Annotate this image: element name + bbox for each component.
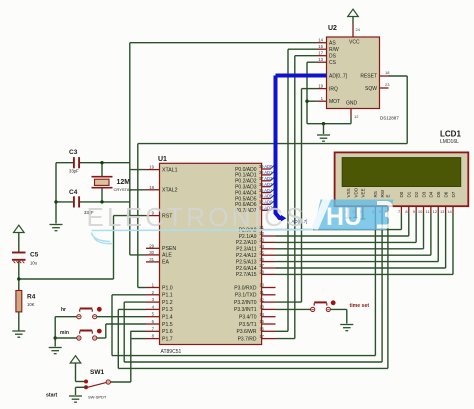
svg-text:D4: D4 [429, 191, 434, 197]
svg-text:CS: CS [329, 60, 337, 66]
svg-text:AD3: AD3 [264, 182, 273, 187]
svg-text:start: start [46, 393, 58, 399]
svg-text:29: 29 [149, 243, 154, 248]
svg-text:P3.5/T1: P3.5/T1 [239, 322, 257, 328]
svg-text:VCC: VCC [349, 40, 360, 46]
svg-text:P3.3/INT1: P3.3/INT1 [234, 307, 257, 313]
svg-text:10: 10 [418, 209, 423, 214]
svg-text:P3.1/TXD: P3.1/TXD [235, 293, 257, 299]
svg-text:15: 15 [259, 319, 264, 324]
svg-text:DS12887: DS12887 [380, 116, 399, 121]
svg-text:16: 16 [259, 327, 264, 332]
svg-text:P2.6/A14: P2.6/A14 [236, 266, 257, 272]
svg-text:ELECTRONICS: ELECTRONICS [87, 202, 307, 232]
svg-text:R/W: R/W [329, 47, 339, 53]
svg-text:DS: DS [329, 54, 337, 60]
svg-text:10u: 10u [30, 261, 38, 266]
svg-text:IRQ: IRQ [329, 86, 338, 92]
svg-text:LCD1: LCD1 [440, 130, 461, 139]
svg-text:P2.3/A11: P2.3/A11 [236, 247, 256, 253]
svg-text:10: 10 [259, 283, 264, 288]
svg-text:LMD16L: LMD16L [440, 139, 459, 145]
svg-text:P1.1: P1.1 [162, 293, 173, 299]
svg-text:P1.5: P1.5 [162, 322, 173, 328]
svg-text:PSEN: PSEN [162, 246, 176, 252]
svg-text:XTAL1: XTAL1 [162, 167, 178, 173]
svg-text:13: 13 [440, 209, 445, 214]
svg-text:18: 18 [385, 70, 390, 75]
svg-text:P2.5/A13: P2.5/A13 [236, 259, 257, 265]
svg-text:12M: 12M [117, 179, 131, 186]
svg-text:AD[0..7]: AD[0..7] [329, 73, 348, 79]
svg-text:AD4: AD4 [264, 188, 273, 193]
svg-text:P1.6: P1.6 [162, 329, 173, 335]
svg-text:P2.1/A9: P2.1/A9 [239, 234, 257, 240]
svg-text:P3.6/WR: P3.6/WR [236, 329, 256, 335]
svg-text:25: 25 [259, 250, 264, 255]
svg-text:VDD: VDD [354, 187, 359, 197]
svg-text:C3: C3 [69, 149, 78, 156]
svg-text:19: 19 [149, 165, 154, 170]
svg-text:10K: 10K [27, 302, 35, 307]
svg-text:AT89C51: AT89C51 [161, 349, 182, 355]
svg-text:P3.2/INT0: P3.2/INT0 [234, 300, 257, 306]
svg-text:11: 11 [260, 290, 265, 295]
svg-text:R4: R4 [27, 294, 36, 301]
svg-text:17: 17 [259, 334, 264, 339]
svg-text:12: 12 [433, 209, 438, 214]
svg-text:min: min [60, 330, 69, 336]
svg-text:MOT: MOT [329, 99, 340, 105]
svg-text:D6: D6 [443, 191, 448, 197]
svg-text:AD0: AD0 [264, 164, 273, 169]
svg-text:P1.7: P1.7 [162, 336, 173, 342]
svg-text:19: 19 [318, 84, 323, 89]
svg-text:ALE: ALE [162, 253, 172, 259]
svg-text:D7: D7 [451, 191, 456, 197]
svg-text:28: 28 [259, 270, 264, 275]
svg-text:26: 26 [259, 257, 264, 262]
svg-text:33pF: 33pF [69, 169, 79, 174]
svg-text:14: 14 [318, 38, 323, 43]
svg-text:VSS: VSS [346, 188, 351, 197]
svg-text:AD1: AD1 [264, 170, 273, 175]
svg-text:C5: C5 [30, 252, 39, 259]
svg-text:RESET: RESET [360, 74, 377, 80]
svg-text:RW: RW [380, 189, 385, 197]
svg-text:14: 14 [447, 209, 452, 214]
svg-text:C4: C4 [69, 189, 78, 196]
svg-text:18: 18 [149, 185, 154, 190]
svg-text:14: 14 [259, 312, 264, 317]
svg-text:P2.4/A12: P2.4/A12 [236, 253, 257, 259]
svg-text:15: 15 [318, 44, 323, 49]
svg-text:U2: U2 [328, 25, 337, 32]
svg-text:13: 13 [318, 57, 323, 62]
svg-text:AD2: AD2 [264, 176, 273, 181]
svg-text:D3: D3 [421, 191, 426, 197]
svg-text:AS: AS [329, 41, 336, 47]
svg-text:VEE: VEE [361, 188, 366, 197]
svg-text:D1: D1 [407, 191, 412, 197]
svg-text:31: 31 [149, 257, 154, 262]
svg-text:D2: D2 [414, 191, 419, 197]
svg-text:P1.2: P1.2 [162, 300, 173, 306]
svg-text:SQW: SQW [365, 86, 377, 92]
svg-text:P3.7/RD: P3.7/RD [238, 336, 257, 342]
svg-text:XTAL2: XTAL2 [162, 188, 178, 194]
svg-text:E: E [386, 194, 391, 197]
svg-text:U1: U1 [158, 156, 167, 163]
svg-text:EA: EA [162, 260, 169, 266]
svg-text:23: 23 [385, 82, 390, 87]
svg-text:17: 17 [318, 51, 323, 56]
svg-text:30: 30 [149, 250, 154, 255]
svg-text:24: 24 [356, 27, 361, 32]
svg-text:time set: time set [350, 303, 370, 309]
svg-text:P3.4/T0: P3.4/T0 [239, 315, 257, 321]
svg-text:12: 12 [259, 297, 264, 302]
svg-text:P3.0/RXD: P3.0/RXD [234, 285, 257, 291]
svg-text:HU: HU [326, 203, 362, 231]
svg-text:AD5: AD5 [264, 194, 273, 199]
svg-text:hr: hr [61, 307, 66, 313]
svg-text:GND: GND [346, 101, 358, 107]
svg-text:27: 27 [259, 263, 264, 268]
svg-text:13: 13 [259, 305, 264, 310]
svg-text:P1.0: P1.0 [162, 285, 173, 291]
svg-text:P2.7/A15: P2.7/A15 [236, 272, 257, 278]
svg-text:D0: D0 [399, 191, 404, 197]
svg-text:24: 24 [259, 244, 264, 249]
svg-text:P2.2/A10: P2.2/A10 [236, 240, 257, 246]
svg-text:P1.4: P1.4 [162, 315, 173, 321]
svg-text:23: 23 [259, 238, 264, 243]
svg-text:RS: RS [373, 191, 378, 197]
svg-text:SW-SPDT: SW-SPDT [88, 395, 107, 400]
svg-text:12: 12 [354, 114, 359, 119]
svg-text:SW1: SW1 [90, 369, 104, 376]
svg-text:P1.3: P1.3 [162, 307, 173, 313]
svg-text:D5: D5 [436, 191, 441, 197]
